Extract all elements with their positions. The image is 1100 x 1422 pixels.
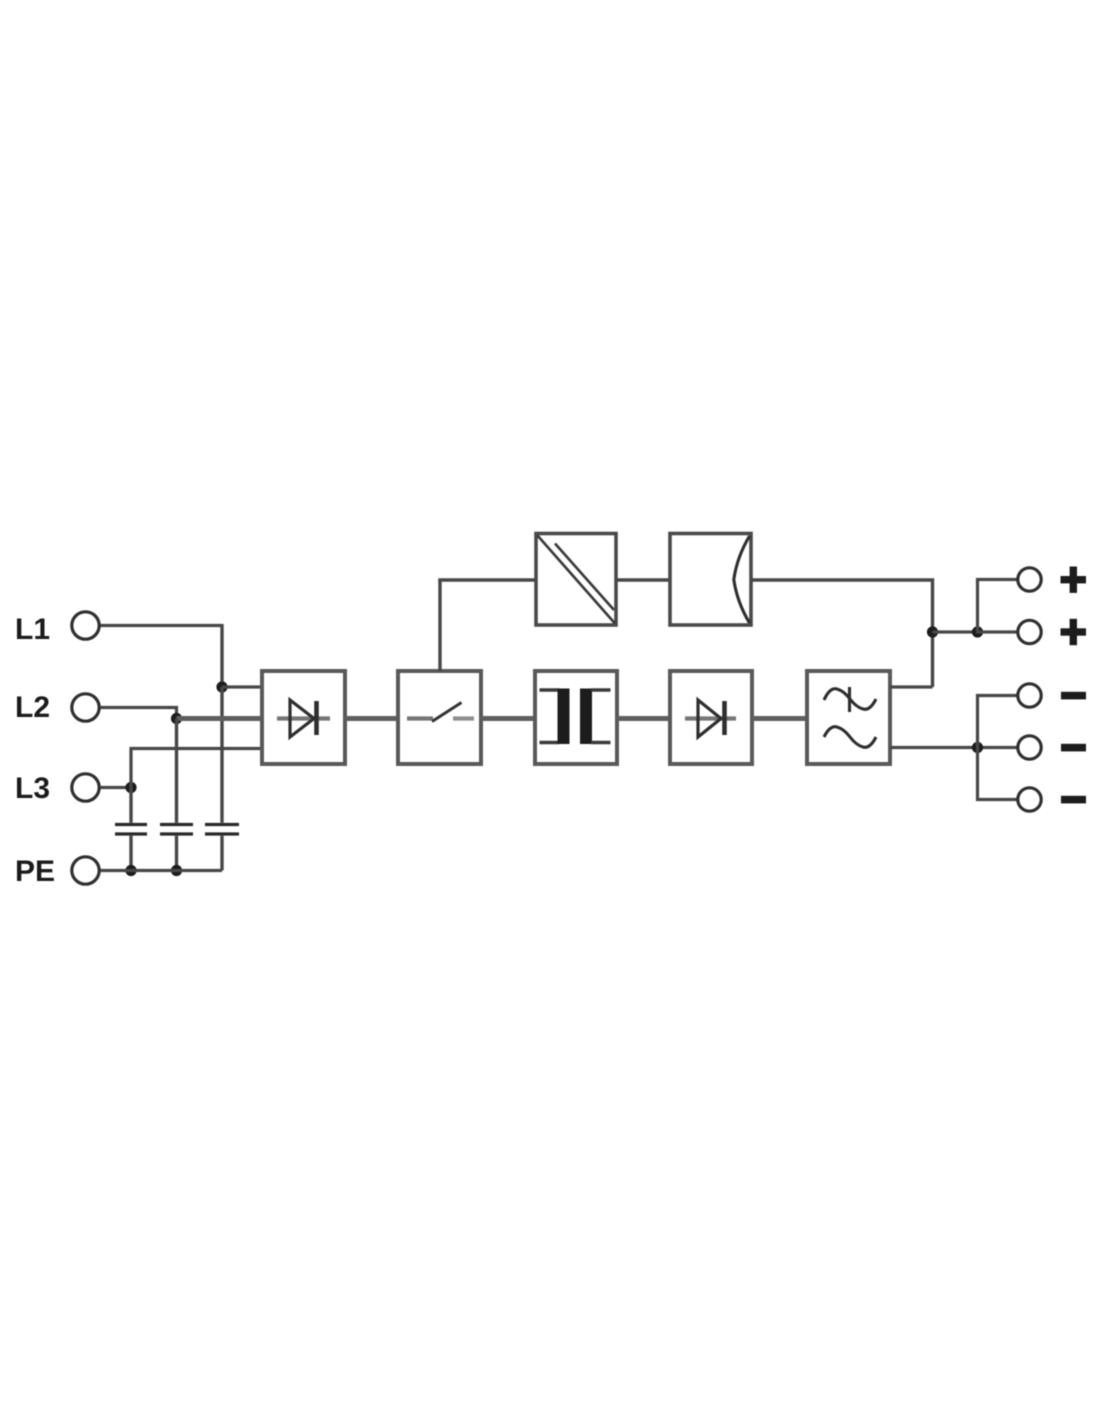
wire U2 to U3 (616, 578, 670, 581)
node C1 PE junction (125, 865, 136, 876)
wire L3 terminal to node (101, 786, 132, 789)
node C2 PE junction (171, 865, 182, 876)
terminal minus 3 (1018, 788, 1041, 811)
filter AC symbol bottom (824, 727, 876, 748)
diode block D2 (670, 671, 752, 764)
svg-text:L2: L2 (15, 691, 50, 724)
node minus splitter (972, 742, 983, 753)
wire L2 terminal to bus junction (101, 708, 177, 719)
through line in D2 (685, 716, 736, 720)
wire to minus terminal 3 (978, 746, 1017, 800)
converter diagonals (538, 536, 616, 624)
terminal PE (72, 857, 99, 884)
wire U1 to S1 (345, 716, 398, 721)
switch contact (407, 703, 474, 722)
svg-text:L3: L3 (15, 772, 50, 805)
terminal L1 (72, 612, 99, 639)
wire L1 riser (220, 624, 223, 687)
label minus 3 (1061, 796, 1086, 804)
wire L1 riser to capacitor C3 (220, 687, 223, 823)
wire L1 terminal to riser (101, 624, 223, 627)
wire S1 to T1 (481, 716, 535, 721)
terminal minus 1 (1018, 684, 1041, 707)
label plus 1 (1061, 567, 1087, 593)
terminal L2 (72, 694, 99, 721)
capacitor C3 (205, 825, 239, 835)
capacitor C2 (160, 825, 193, 835)
wire filter minus output (890, 746, 1017, 749)
switch block S1 (398, 671, 481, 764)
wire C3 to PE rail (220, 836, 223, 871)
wire T1 to D2 (617, 716, 670, 721)
wire S1 control from DC link (438, 580, 441, 671)
svg-text:L1: L1 (15, 613, 50, 646)
rectifier block U1 (262, 671, 345, 764)
diode symbol in D2 (698, 700, 725, 737)
node L2 bus junction (171, 713, 182, 724)
wire PE rail (101, 869, 223, 872)
transformer windings (540, 689, 611, 745)
wire plus branch (933, 630, 978, 633)
capacitor C1 (115, 825, 147, 835)
wire D2 to filter (752, 716, 807, 721)
node L1 junction (216, 681, 227, 692)
wire junction to rectifier top input (222, 685, 262, 688)
filter AC symbol top (824, 687, 876, 712)
label minus 2 (1061, 744, 1086, 752)
svg-text:PE: PE (15, 855, 55, 888)
diode symbol in U1 (290, 700, 317, 737)
wire C1 to PE rail (129, 836, 132, 871)
wire main bus to rectifier (177, 716, 263, 721)
regulator block U3 (670, 534, 751, 626)
terminal plus 2 (1018, 620, 1041, 643)
node plus rail junction (927, 626, 938, 637)
wire to plus terminal 1 (978, 580, 1017, 634)
node L3 junction (125, 782, 136, 793)
wire filter to plus rail (890, 685, 933, 688)
wire C2 to PE rail (175, 836, 178, 871)
wire L3 drop to capacitor C1 (129, 788, 132, 823)
wire L3 riser to rectifier bottom input (131, 749, 262, 790)
wire U3 to plus rail (751, 580, 933, 687)
terminal plus 1 (1018, 568, 1041, 591)
wire to plus terminal 2 (978, 630, 1017, 633)
regulator chevron symbol (734, 536, 750, 623)
terminal L3 (72, 774, 99, 801)
through line in U1 (277, 716, 330, 720)
wire DC link to converter U2 (440, 580, 536, 582)
label plus 2 (1061, 619, 1087, 645)
terminal minus 2 (1018, 736, 1041, 759)
converter block U2 (536, 534, 616, 626)
wire L2 drop to capacitor C2 (175, 719, 178, 823)
node plus splitter (972, 626, 983, 637)
transformer block T1 (535, 671, 617, 764)
label minus 1 (1061, 692, 1086, 700)
wire to minus terminal 1 (978, 696, 1017, 750)
filter block F1 (807, 671, 890, 764)
